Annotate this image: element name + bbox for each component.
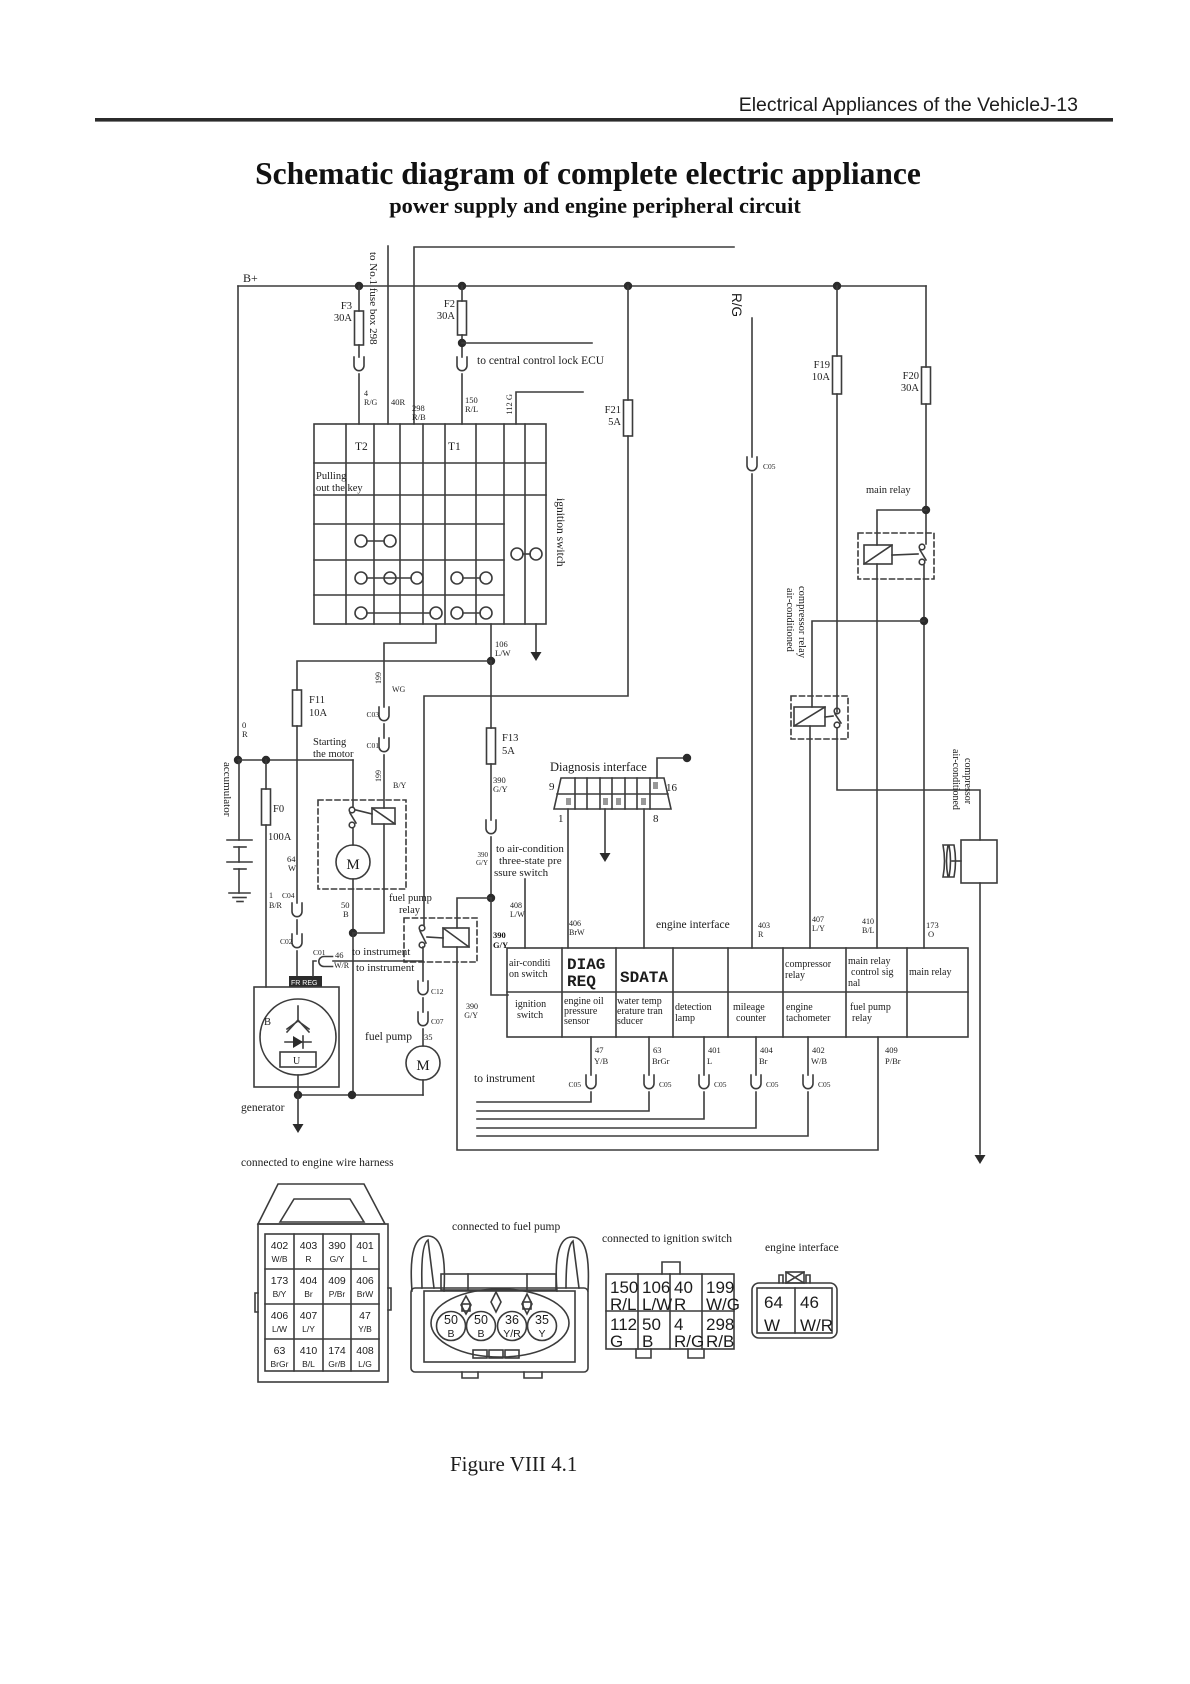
connector terminal (F3 wire) [354,357,364,371]
generator circle [260,999,336,1075]
generator G1 box [254,987,339,1087]
relay K3 fuel pump relay (dashed) [404,918,477,962]
svg-text:R: R [305,1254,311,1264]
J3 right ear [556,1237,588,1291]
svg-text:sducer: sducer [617,1016,644,1027]
wire F3 to connector [358,345,360,357]
svg-text:P/Br: P/Br [329,1289,346,1299]
ignition switch S1 grid [314,424,546,624]
svg-text:F19: F19 [814,360,830,371]
connector J2 grid [265,1234,379,1371]
starter contact [349,807,355,813]
wire F19 to compressor relay contact [836,394,838,712]
svg-text:409: 409 [885,1045,898,1055]
svg-text:on switch: on switch [509,969,548,980]
svg-text:401: 401 [356,1240,374,1252]
svg-text:air-conditioned: air-conditioned [784,588,795,653]
pin 35 Y [528,1312,557,1341]
svg-text:390: 390 [493,930,506,940]
svg-text:B: B [447,1328,454,1340]
fuse F20 30A [922,367,931,404]
svg-text:to instrument: to instrument [474,1073,536,1085]
svg-text:connected to fuel pump: connected to fuel pump [452,1221,561,1233]
wire F2 top [461,286,463,301]
svg-text:8: 8 [653,813,659,825]
svg-text:R/G: R/G [674,1332,704,1351]
relay K1 main relay [858,533,934,579]
svg-text:403: 403 [758,921,770,930]
svg-text:ssure switch: ssure switch [494,867,549,879]
svg-text:G/Y: G/Y [493,940,508,950]
svg-text:B/Y: B/Y [273,1289,287,1299]
wire 409 fuel pump relay coil to ECU [457,947,878,1150]
svg-text:control sig: control sig [851,967,894,978]
svg-text:compressor relay: compressor relay [796,586,807,659]
svg-text:35: 35 [535,1313,549,1327]
svg-text:sensor: sensor [564,1016,590,1027]
svg-text:173: 173 [271,1275,289,1287]
wire 404 Br to instrument [755,1037,757,1075]
pin 36 Y/R [498,1312,527,1341]
svg-text:engine interface: engine interface [765,1242,839,1254]
svg-text:B: B [343,909,349,919]
junction F19 tap [833,282,841,290]
fuel pump M3 [406,1046,440,1080]
svg-text:46: 46 [800,1293,819,1312]
wire 106 to F13 [490,661,492,728]
svg-text:to central control lock ECU: to central control lock ECU [477,355,605,367]
svg-text:Y: Y [538,1328,545,1340]
wire pin16 to node [657,758,685,778]
connector J2 engine wire harness shell [258,1184,385,1224]
connector terminal C07 [418,1012,428,1026]
svg-text:L: L [363,1254,368,1264]
ground arrow (ignition switch) [531,652,542,661]
wire to ground arrow [297,1095,299,1124]
junction main relay coil tap [922,506,930,514]
svg-text:199: 199 [374,672,383,684]
svg-text:407: 407 [300,1310,318,1322]
fuse F21 5A [624,400,633,436]
svg-text:W/B: W/B [271,1254,287,1264]
svg-text:engine interface: engine interface [656,919,730,931]
regulator FR REG [289,976,322,987]
svg-text:401: 401 [708,1045,721,1055]
svg-text:G/Y: G/Y [464,1011,478,1020]
wire 199 B/Y to starter relay coil [383,755,385,808]
wire diagnosis ground [604,809,606,853]
svg-text:to No.1 fuse box 298: to No.1 fuse box 298 [367,252,379,345]
wire starter relay coil ground [353,824,384,933]
wire 35 to fuel pump [422,1029,424,1046]
wire fuel pump relay output [422,947,424,981]
svg-text:T2: T2 [355,441,368,453]
svg-text:Diagnosis interface: Diagnosis interface [550,760,647,774]
connector terminal (F2 wire) [457,357,467,371]
svg-text:counter: counter [736,1013,767,1024]
svg-text:L/Y: L/Y [812,924,825,933]
svg-text:C01: C01 [366,741,379,750]
air-conditioned compressor M1 [961,840,997,883]
wire 46 W/R from instrument [333,960,423,962]
wire F0 top [265,760,267,789]
svg-text:out the key: out the key [316,483,363,494]
svg-text:R: R [674,1295,686,1314]
svg-text:36: 36 [505,1313,519,1327]
svg-text:R: R [242,729,248,739]
starter assembly (dashed) [318,800,406,889]
svg-text:L/W: L/W [510,910,525,919]
svg-text:390: 390 [466,1002,478,1011]
svg-text:C05: C05 [659,1080,672,1089]
svg-text:63: 63 [274,1345,286,1357]
starter relay coil [372,808,395,824]
wire main relay output [923,565,925,948]
svg-text:P/Br: P/Br [885,1056,901,1066]
svg-text:F0: F0 [273,804,284,815]
accumulator (battery) BT1 [238,760,240,840]
svg-text:relay: relay [399,905,421,916]
compressor clutch symbol [943,845,956,877]
fuse F0 100A [262,789,271,825]
ground arrow (diagnosis) [600,853,611,862]
svg-text:50: 50 [474,1313,488,1327]
svg-text:R/L: R/L [610,1295,636,1314]
svg-text:W/R: W/R [334,961,350,970]
svg-text:B: B [477,1328,484,1340]
svg-text:C03: C03 [366,710,379,719]
svg-text:W/G: W/G [706,1295,740,1314]
svg-text:Starting: Starting [313,737,347,748]
svg-text:three-state pre: three-state pre [499,855,562,867]
fuse F3 30A [355,311,364,345]
wire 390 segment [490,837,492,898]
wire compressor to ground arrow [979,883,981,1154]
connector J4 ignition switch [662,1262,680,1274]
wire to No.1 fuse box 298 [387,246,389,424]
node (diagnosis feed) [683,754,691,762]
svg-text:Y/B: Y/B [594,1056,609,1066]
svg-text:50: 50 [444,1313,458,1327]
svg-text:main relay: main relay [866,485,911,496]
svg-text:lamp: lamp [675,1013,695,1024]
svg-text:T1: T1 [448,441,461,453]
svg-text:detection: detection [675,1002,712,1013]
wire 199 WG from ignition switch [384,624,436,707]
svg-text:F20: F20 [903,371,919,382]
ignition switch contacts row3 [355,607,367,619]
svg-text:5A: 5A [502,746,515,757]
generator ground rail [298,1094,423,1096]
svg-text:10A: 10A [812,372,831,383]
junction 390 fuel pump relay tap [487,894,495,902]
pin 50 B [467,1312,496,1341]
svg-text:C05: C05 [568,1080,581,1089]
svg-text:REQ: REQ [567,973,596,991]
junction F3 tap [355,282,363,290]
svg-text:406: 406 [569,919,581,928]
svg-text:30A: 30A [437,311,456,322]
relay K2 air-conditioned compressor relay [791,696,848,739]
svg-text:R/G: R/G [729,293,744,317]
svg-text:to instrument: to instrument [352,946,410,958]
svg-text:M: M [416,1058,429,1074]
svg-text:W: W [288,863,296,873]
wire F11 to battery rail [296,726,298,760]
svg-text:410: 410 [862,917,874,926]
svg-text:Figure VIII 4.1: Figure VIII 4.1 [450,1452,577,1476]
wire 390 G/Y to ignition switch cell [491,898,508,995]
svg-text:to air-condition: to air-condition [496,843,564,855]
svg-text:DIAG: DIAG [567,956,605,974]
wire F20 drop [925,286,927,367]
svg-text:1: 1 [558,813,564,825]
fuel pump relay coil [443,928,469,947]
wire 47 Y/B to instrument [590,1037,592,1075]
wire ignition switch to ground arrow [535,624,537,652]
connector terminal C04 [292,903,302,917]
junction F21 tap [624,282,632,290]
wire pin to SDATA [643,809,645,948]
wire fuel pump ground [422,1080,424,1095]
svg-text:64: 64 [764,1293,783,1312]
svg-text:relay: relay [852,1013,872,1024]
svg-text:B: B [642,1332,653,1351]
svg-text:power supply and engine periph: power supply and engine peripheral circu… [389,193,801,218]
connector terminal C02 [292,934,302,948]
connector terminal C01 (starter wire) [379,738,389,752]
svg-text:Y/R: Y/R [503,1328,521,1340]
svg-text:63: 63 [653,1045,662,1055]
svg-text:174: 174 [328,1345,346,1357]
wire 408 L/W to air-condition switch cell [524,879,526,948]
fuse F11 10A [293,690,302,726]
svg-text:BrW: BrW [357,1289,374,1299]
wire 199 segment [383,724,385,738]
svg-text:404: 404 [300,1275,318,1287]
wire 390 G/Y below F13 [490,764,492,820]
wire 63 BrGr to instrument [648,1037,650,1075]
wire F21 top [627,286,629,400]
connector terminal C12 [418,981,428,995]
svg-text:ignition: ignition [515,999,546,1010]
wire 4 R/G to ignition switch [358,374,360,424]
svg-text:F3: F3 [341,301,352,312]
svg-text:F21: F21 [605,405,621,416]
junction F0 branch [262,756,270,764]
svg-text:B/R: B/R [269,901,283,910]
svg-text:390: 390 [328,1240,346,1252]
ground (battery) [229,892,250,894]
svg-text:engine: engine [786,1002,813,1013]
svg-text:F13: F13 [502,733,518,744]
ignition switch contacts row1 [355,535,367,547]
connector J3 fuel pump shell [411,1288,588,1372]
svg-text:46: 46 [335,950,344,960]
svg-text:10A: 10A [309,708,328,719]
wire to fuel pump relay coil [457,898,491,928]
junction F2 tap [458,282,466,290]
svg-text:L/W: L/W [272,1324,287,1334]
wire F3 top [358,286,360,311]
wire to central control lock ECU [462,342,592,344]
junction compressor relay feed [920,617,928,625]
J3 keys [461,1292,532,1314]
svg-text:199: 199 [374,770,383,782]
svg-text:R/B: R/B [706,1332,734,1351]
wire to F11 [297,661,491,690]
svg-text:404: 404 [760,1045,774,1055]
svg-text:main relay: main relay [848,956,890,967]
wire 50 B motor to ground rail [352,879,354,933]
wire contact to motor [352,828,354,845]
wire B+ left drop to accumulator [237,286,239,760]
J4 bottom tabs [636,1349,704,1358]
wire B+ bus [238,285,926,287]
wire to regulator [296,951,298,976]
diagnosis connector J1 [554,778,671,809]
starter motor M2 [336,845,370,879]
svg-text:C12: C12 [431,987,444,996]
svg-text:B: B [264,1017,271,1028]
svg-text:ignition switch: ignition switch [554,498,566,567]
svg-text:G/Y: G/Y [493,784,508,794]
svg-text:112 G: 112 G [504,394,514,415]
svg-text:408: 408 [356,1345,374,1357]
svg-text:L/W: L/W [642,1295,672,1314]
J3 oval [431,1289,569,1357]
wire 112 G [516,392,583,424]
svg-text:C01: C01 [313,948,326,957]
svg-text:U: U [293,1056,301,1067]
svg-text:C07: C07 [431,1017,444,1026]
svg-text:410: 410 [300,1345,318,1357]
svg-text:Electrical Appliances of the V: Electrical Appliances of the VehicleJ-13 [739,94,1078,116]
wire F2 bottom [461,335,463,357]
svg-text:100A: 100A [268,832,292,843]
wire 403 R to engine interface [751,474,753,948]
wire 64 W regulator feed [296,760,298,903]
svg-text:406: 406 [356,1275,374,1287]
svg-text:F2: F2 [444,299,455,310]
svg-text:air-conditioned: air-conditioned [950,749,961,810]
svg-text:W/R: W/R [800,1316,833,1335]
J3 bottom keys [473,1350,487,1358]
wire segment [296,920,298,934]
svg-text:fuel pump: fuel pump [365,1031,412,1043]
pin 50 B [437,1312,466,1341]
junction central lock tap [458,339,466,347]
svg-text:BrGr: BrGr [271,1359,289,1369]
J3 top bar [441,1274,556,1290]
svg-text:B/Y: B/Y [393,781,407,790]
wire 407 L/Y compressor relay coil to ECU [809,726,811,948]
svg-text:O: O [928,929,934,939]
svg-text:connected to ignition switch: connected to ignition switch [602,1233,732,1245]
svg-text:9: 9 [549,781,555,793]
svg-text:C05: C05 [763,462,776,471]
svg-text:Y/B: Y/B [358,1324,372,1334]
svg-text:R/B: R/B [412,412,426,422]
wire 106 L/W from ignition switch [490,624,492,661]
svg-text:408: 408 [510,901,522,910]
svg-text:47: 47 [595,1045,604,1055]
svg-text:L: L [707,1056,712,1066]
svg-text:L/Y: L/Y [302,1324,315,1334]
svg-text:BrGr: BrGr [652,1056,670,1066]
wire to generator rail [352,933,354,1095]
svg-text:WG: WG [392,685,406,694]
svg-text:G: G [610,1332,623,1351]
wire segment [422,998,424,1012]
wire battery horizontal to starter [238,759,353,761]
svg-text:FR REG: FR REG [291,980,317,987]
svg-text:35: 35 [424,1032,433,1042]
svg-text:409: 409 [328,1275,346,1287]
wire F19 top [836,286,838,356]
wire F20 to main relay [925,404,927,544]
svg-text:M: M [346,857,359,873]
header rule [95,118,1113,122]
svg-text:C04: C04 [282,891,295,900]
svg-text:BrW: BrW [569,928,585,937]
wire 150 R/L to ignition switch [461,374,463,424]
svg-text:406: 406 [271,1310,289,1322]
svg-text:B+: B+ [243,271,258,285]
fuel pump relay contact [419,925,425,931]
ground arrow (generator) [293,1124,304,1133]
svg-text:accumulator: accumulator [221,762,233,817]
connector terminal C03 [379,707,389,721]
svg-text:402: 402 [271,1240,289,1252]
svg-text:Schematic diagram of complete: Schematic diagram of complete electric a… [255,156,921,191]
junction starter ground [349,929,357,937]
generator U regulator box [280,1052,316,1067]
generator rotor symbol [287,1006,309,1032]
svg-text:R/L: R/L [465,404,478,414]
ECU interface box [507,948,968,1037]
svg-text:C05: C05 [766,1080,779,1089]
svg-text:G/Y: G/Y [330,1254,345,1264]
svg-text:tachometer: tachometer [786,1013,831,1024]
svg-text:Gr/B: Gr/B [328,1359,346,1369]
fuse F2 30A [458,301,467,335]
svg-text:402: 402 [812,1045,825,1055]
svg-text:390: 390 [478,851,489,859]
svg-text:40R: 40R [391,397,406,407]
svg-text:Pulling: Pulling [316,471,347,482]
svg-text:compressor: compressor [785,959,832,970]
ignition switch contacts row2 [355,572,367,584]
ground arrow (compressor) [975,1155,986,1164]
svg-text:relay: relay [785,970,805,981]
svg-text:L/W: L/W [495,648,511,658]
ignition switch contacts far right [511,548,523,560]
svg-text:C02: C02 [280,937,293,946]
svg-text:to instrument: to instrument [356,962,414,974]
svg-text:30A: 30A [901,383,920,394]
wire 410 B/L main relay coil to ECU [876,564,878,948]
connector J5 engine interface [786,1272,804,1283]
svg-text:R: R [758,930,764,939]
connector terminal C05 (R/G wire) [747,457,757,471]
svg-text:SDATA: SDATA [620,969,668,987]
connector J2 side tabs [255,1288,391,1312]
svg-text:mileage: mileage [733,1002,765,1013]
connector terminal (390 wire) [486,820,496,834]
ignition switch contacts right row2 [451,572,463,584]
J3 bottom tabs [462,1372,542,1378]
